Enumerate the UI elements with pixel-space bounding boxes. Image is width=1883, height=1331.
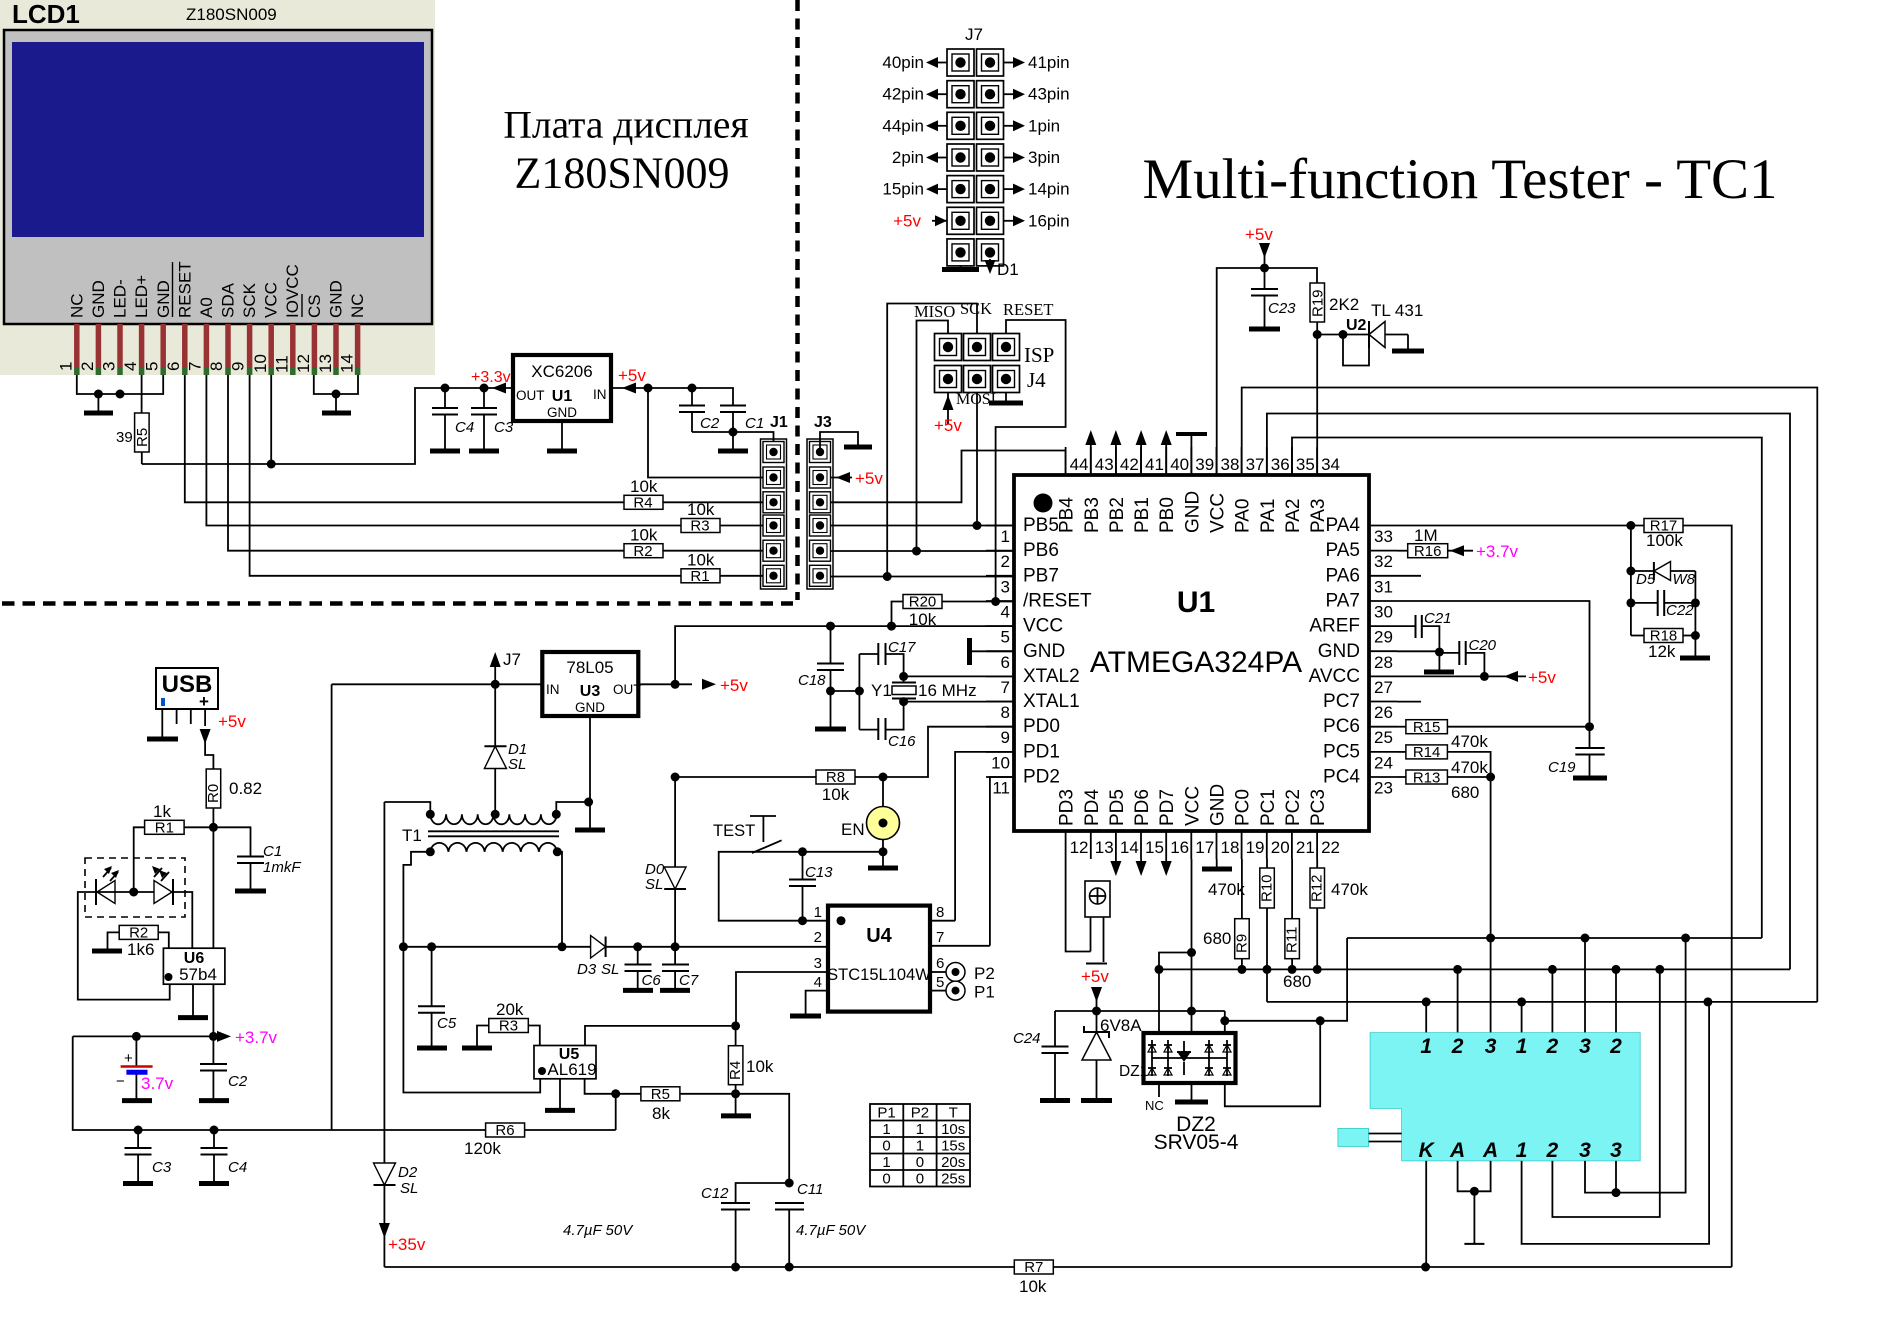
svg-text:RESET: RESET [176, 261, 195, 318]
svg-text:C5: C5 [437, 1015, 457, 1032]
svg-text:PD6: PD6 [1132, 789, 1153, 826]
svg-text:SL: SL [508, 756, 526, 773]
svg-text:680: 680 [1451, 783, 1479, 802]
svg-text:15s: 15s [941, 1138, 965, 1155]
svg-text:R11: R11 [1284, 927, 1301, 953]
svg-text:10k: 10k [687, 500, 715, 519]
svg-text:U2: U2 [1346, 317, 1367, 334]
svg-text:AVCC: AVCC [1309, 666, 1360, 687]
svg-text:2: 2 [1546, 1139, 1559, 1162]
rail pin17 to DZ2 left pin [1159, 953, 1192, 1034]
svg-text:MISO: MISO [914, 302, 955, 321]
U5 ground [559, 1079, 561, 1109]
svg-text:2: 2 [1609, 1035, 1622, 1058]
wire LCD pin9 SCK to R1 row [250, 375, 681, 576]
resistor R18 (12k) [1644, 629, 1683, 643]
U1 GND stem and ground [561, 421, 563, 449]
svg-text:XTAL2: XTAL2 [1023, 666, 1080, 687]
svg-text:PA6: PA6 [1325, 565, 1360, 586]
svg-text:SRV05-4: SRV05-4 [1154, 1131, 1239, 1154]
svg-text:Multi-function Tester - TC1: Multi-function Tester - TC1 [1142, 148, 1777, 211]
svg-text:19: 19 [1246, 838, 1265, 857]
svg-text:GND: GND [89, 280, 108, 318]
svg-text:D2: D2 [398, 1164, 418, 1181]
IC U4 STC15L104W [828, 906, 930, 1012]
svg-text:4: 4 [121, 362, 140, 371]
svg-text:R5: R5 [134, 428, 151, 447]
svg-text:+5v: +5v [1245, 225, 1273, 244]
socket K pin to bottom rail [1425, 1161, 1427, 1267]
svg-text:VCC: VCC [1182, 786, 1203, 826]
+5v tap for IR [1086, 963, 1107, 965]
svg-text:PA2: PA2 [1283, 498, 1304, 533]
svg-text:6: 6 [936, 955, 944, 972]
svg-text:6: 6 [1001, 653, 1010, 672]
svg-text:10: 10 [991, 753, 1010, 772]
svg-text:2: 2 [1451, 1035, 1464, 1058]
svg-text:680: 680 [1203, 929, 1231, 948]
svg-text:VCC: VCC [1208, 493, 1229, 533]
svg-text:VCC: VCC [1023, 616, 1063, 637]
R14 right riser down to socket [1447, 752, 1490, 1033]
svg-text:42pin: 42pin [882, 85, 924, 104]
connector J1 [761, 414, 788, 589]
bottom +35v rail [384, 1266, 1014, 1268]
wire ISP MISO to PB6 row [917, 321, 949, 552]
+5v rail with C24 and DZ1 [1055, 1010, 1225, 1012]
right rail D5-C22-R18 to ground [1694, 571, 1696, 656]
svg-text:2pin: 2pin [892, 148, 924, 167]
resistor R20 (10k) /RESET pull-up [903, 595, 942, 609]
svg-text:8: 8 [207, 362, 226, 371]
svg-text:C1: C1 [745, 415, 764, 432]
D2 column / +35v vertical [383, 802, 385, 1163]
resistor R1 (10k) to J1 pin6 [681, 569, 720, 583]
svg-text:−: − [116, 1073, 125, 1090]
capacitor C19 [1575, 747, 1604, 749]
svg-text:C11: C11 [797, 1181, 823, 1198]
svg-text:A0: A0 [197, 297, 216, 318]
svg-text:PA4: PA4 [1325, 515, 1360, 536]
wire +5v down to J1 pin2 [648, 388, 763, 478]
svg-text:+5v: +5v [934, 416, 962, 435]
svg-text:12: 12 [294, 354, 313, 373]
resistor R19 (2K2) [1310, 283, 1325, 322]
svg-text:470k: 470k [1208, 880, 1245, 899]
svg-text:44: 44 [1070, 455, 1089, 474]
U6/R0 column down to +3.7v row [212, 984, 214, 1036]
svg-text:C2: C2 [228, 1073, 248, 1090]
capacitor C24 [1054, 1011, 1056, 1047]
U4 pin3 wire to R4 node [736, 972, 828, 1026]
wire LCD pin7 A0 to R3 row [206, 375, 681, 526]
svg-text:+5v: +5v [218, 712, 246, 731]
svg-text:R12: R12 [1309, 874, 1326, 902]
+35v tap [379, 1223, 390, 1238]
svg-text:4.7µF 50V: 4.7µF 50V [796, 1222, 867, 1239]
wire ISP MOSI (pin5) to PB5 row [976, 392, 978, 526]
DZ2 center zener [1178, 1053, 1190, 1062]
diode D0 SL on +5v column [674, 777, 676, 867]
svg-text:C2: C2 [700, 415, 720, 432]
svg-text:R10: R10 [1259, 874, 1276, 902]
svg-text:0.82: 0.82 [229, 779, 262, 798]
svg-text:41pin: 41pin [1028, 53, 1070, 72]
svg-text:2: 2 [78, 362, 97, 371]
svg-text:40: 40 [1170, 455, 1189, 474]
svg-text:44pin: 44pin [882, 116, 924, 135]
svg-text:PC2: PC2 [1283, 789, 1304, 826]
svg-text:+5v: +5v [1081, 967, 1109, 986]
svg-text:EN: EN [841, 820, 865, 839]
capacitor C11 [775, 1202, 804, 1204]
svg-text:3: 3 [814, 955, 822, 972]
svg-text:NC: NC [68, 293, 87, 318]
GND pin6 terminator bar [970, 650, 1015, 652]
svg-text:IN: IN [593, 387, 607, 402]
svg-text:XC6206: XC6206 [531, 362, 592, 381]
svg-text:R9: R9 [1233, 934, 1250, 953]
capacitor C6 [637, 947, 639, 965]
socket bus line 1 [1347, 937, 1762, 939]
resistor R5 (39 ohm backlight) [141, 375, 143, 413]
IC U6 57b4 [163, 948, 225, 984]
main secondary output row [403, 946, 590, 948]
svg-text:1pin: 1pin [1028, 116, 1060, 135]
opto right LED [154, 881, 172, 904]
crystal network left rail [831, 690, 860, 692]
svg-text:33: 33 [1374, 527, 1393, 546]
LCD screen [12, 42, 424, 237]
PD1 pin10 wire down to U4 pin8 [955, 752, 1014, 921]
capacitor C21 on AREF [1397, 625, 1416, 627]
LCD pin names rotated [68, 261, 368, 318]
svg-text:42: 42 [1120, 455, 1139, 474]
svg-text:1: 1 [916, 1121, 924, 1138]
svg-text:14pin: 14pin [1028, 180, 1070, 199]
PA0 pin37 riser to right edge [1242, 388, 1818, 1002]
LCD pin numbers rotated [57, 354, 357, 373]
resistor R17 (100k) [1644, 519, 1683, 533]
capacitor C4 (bottom left) [213, 1130, 215, 1148]
J7 bottom-right pad to D1 arrow [989, 259, 991, 266]
J3 pin2 +5v arrow [831, 477, 853, 479]
IC U5 AL619 [534, 1046, 596, 1079]
resistor R10 (470k) vertical on PC1 [1260, 868, 1275, 908]
svg-text:1: 1 [1516, 1035, 1528, 1058]
svg-text:C23: C23 [1268, 300, 1296, 317]
svg-text:13: 13 [1095, 838, 1114, 857]
capacitor C20 [1439, 652, 1459, 654]
svg-text:IOVCC: IOVCC [283, 264, 302, 318]
svg-text:2: 2 [1546, 1035, 1559, 1058]
svg-text:21: 21 [1296, 838, 1315, 857]
PC7 pin26 stub wire [1397, 701, 1421, 703]
U5 right-bottom pin to R5 row [585, 1079, 616, 1094]
resistor R4 (10k) to J1 pin3 [624, 495, 663, 509]
svg-text:9: 9 [1001, 728, 1010, 747]
svg-text:OUT: OUT [516, 388, 545, 403]
svg-text:3: 3 [1001, 577, 1010, 596]
resistor R15 (470k) on PC6 [1397, 726, 1406, 728]
svg-text:PA3: PA3 [1308, 498, 1329, 533]
svg-text:20k: 20k [496, 1000, 524, 1019]
svg-text:29: 29 [1374, 628, 1393, 647]
resistor R7 (10k) on bottom rail [1014, 1260, 1053, 1274]
svg-text:PB7: PB7 [1023, 565, 1059, 586]
TEST lower terminal to U4 pin1 [719, 852, 828, 921]
svg-text:R15: R15 [1413, 719, 1441, 736]
svg-text:C13: C13 [805, 864, 833, 881]
resistor R6 (120k) [486, 1123, 525, 1137]
arrowhead into OUT [492, 383, 506, 394]
resistor R8 (10k) [816, 770, 855, 784]
regulator U1 XC6206 [513, 355, 611, 421]
svg-text:1: 1 [882, 1154, 890, 1171]
J7 left pin labels and arrows [882, 53, 947, 230]
svg-text:D1: D1 [997, 260, 1019, 279]
svg-text:PB2: PB2 [1107, 497, 1128, 533]
IR legs [1090, 917, 1092, 952]
svg-text:D3: D3 [577, 961, 597, 978]
capacitor C4 [441, 384, 450, 393]
+3.3v rail from R5 to XC6206 OUT [142, 388, 513, 464]
VCC pin17 column down [1191, 859, 1193, 1033]
PA6 pin31 stub wire [1397, 575, 1421, 577]
EN pad (yellow) [867, 807, 900, 840]
diode D2 SL [374, 1163, 396, 1185]
svg-text:J3: J3 [814, 414, 832, 431]
svg-text:+5v: +5v [720, 676, 748, 695]
svg-text:26: 26 [1374, 703, 1393, 722]
svg-text:J4: J4 [1027, 368, 1046, 392]
J3 pin1 to ground [820, 432, 858, 452]
DZ2 NC pin [1158, 1083, 1160, 1097]
svg-text:18: 18 [1221, 838, 1240, 857]
resistor R3 (20k) [489, 1019, 529, 1033]
svg-text:R3: R3 [690, 518, 709, 535]
svg-text:Плата дисплея: Плата дисплея [503, 103, 748, 147]
capacitor C7 [674, 947, 676, 965]
TEST to C13/EN row [752, 851, 883, 853]
svg-text:43: 43 [1095, 455, 1114, 474]
svg-text:6: 6 [164, 362, 183, 371]
svg-text:15pin: 15pin [882, 180, 924, 199]
USB connector [156, 668, 218, 737]
truth table P1 P2 T [870, 1104, 970, 1187]
socket bottom pin labels [1419, 1139, 1623, 1162]
svg-text:1: 1 [916, 1138, 924, 1155]
svg-text:36: 36 [1271, 455, 1290, 474]
svg-text:P2: P2 [974, 964, 995, 983]
svg-text:4: 4 [1001, 603, 1010, 622]
svg-text:39: 39 [116, 429, 133, 446]
svg-text:1M: 1M [1414, 526, 1438, 545]
svg-text:IN: IN [546, 682, 560, 697]
svg-text:7: 7 [1001, 678, 1010, 697]
PA7 pin30 wire to C19 rail [1397, 601, 1590, 748]
svg-text:GND: GND [1023, 641, 1065, 662]
svg-text:PB4: PB4 [1057, 497, 1078, 533]
svg-text:W8: W8 [1673, 571, 1696, 588]
svg-text:24: 24 [1374, 753, 1393, 772]
svg-text:+5v: +5v [1528, 668, 1556, 687]
J3 pin4 wire to PB5 [831, 525, 1015, 527]
svg-text:+: + [124, 1050, 133, 1067]
svg-text:PD7: PD7 [1157, 789, 1178, 826]
svg-text:13: 13 [316, 354, 335, 373]
XTAL2 row [904, 675, 1014, 677]
svg-text:PA7: PA7 [1325, 591, 1360, 612]
wire LCD pins 1,2,3,5 to ground [77, 375, 163, 394]
svg-text:C18: C18 [798, 672, 826, 689]
resistor R13 (680) on PC4 [1397, 776, 1406, 778]
svg-text:ISP: ISP [1024, 343, 1054, 367]
U3 OUT +5v [638, 683, 692, 685]
svg-text:R6: R6 [495, 1122, 514, 1139]
T1 primary winding [430, 814, 556, 824]
svg-text:R16: R16 [1414, 543, 1442, 560]
svg-text:PC7: PC7 [1323, 691, 1360, 712]
ISP pin6 ground [1005, 392, 1007, 401]
svg-text:GND: GND [1182, 491, 1203, 533]
diode D1 SL [494, 684, 496, 746]
svg-text:PC1: PC1 [1258, 789, 1279, 826]
svg-text:10k: 10k [687, 551, 715, 570]
svg-text:20: 20 [1271, 838, 1290, 857]
svg-text:+5v: +5v [618, 366, 646, 385]
wire IN rail down to R6 row [331, 684, 333, 1130]
U4 pin7 stub [930, 945, 990, 947]
svg-text:PD5: PD5 [1107, 789, 1128, 826]
svg-text:11: 11 [273, 355, 292, 373]
svg-text:PD4: PD4 [1082, 789, 1103, 826]
connector J3 [807, 414, 833, 589]
svg-text:5: 5 [936, 974, 944, 991]
svg-text:8: 8 [936, 904, 944, 921]
svg-text:7: 7 [936, 929, 944, 946]
svg-text:TL 431: TL 431 [1371, 301, 1423, 320]
svg-text:D5: D5 [1636, 571, 1656, 588]
svg-text:35: 35 [1296, 455, 1315, 474]
AVCC pin27 +5v arrow [1397, 675, 1526, 677]
P1 pad [930, 990, 946, 992]
VCC row (pin5) from +5v node [675, 626, 1014, 684]
svg-text:GND: GND [547, 405, 577, 420]
down arrows below PD5 PD6 PD7 [1115, 859, 1117, 862]
svg-text:3: 3 [100, 362, 119, 371]
svg-text:C4: C4 [228, 1159, 247, 1176]
svg-text:15: 15 [1145, 838, 1164, 857]
capacitor C3 [480, 384, 489, 393]
svg-text:3: 3 [1579, 1139, 1591, 1162]
svg-text:10k: 10k [822, 785, 850, 804]
svg-text:PB6: PB6 [1023, 540, 1059, 561]
J7 bottom-left pad to ground [960, 266, 962, 268]
socket bus line 3 [1267, 1001, 1817, 1003]
svg-text:C16: C16 [888, 733, 916, 750]
ground LCD right [335, 394, 337, 411]
U1 left pin stubs and numbers 1-11 [986, 515, 1092, 798]
svg-text:0: 0 [916, 1154, 924, 1171]
U1 right pin stubs and numbers 33-23 [1309, 515, 1397, 798]
ISP header J4 [935, 334, 1020, 393]
socket A pins joined to cathode bar [1458, 1161, 1491, 1191]
wire C2 bottom joining C1 column, then to J1 pin1 [692, 431, 733, 433]
svg-text:R19: R19 [1310, 289, 1327, 317]
T1 primary left lead to D2 column [384, 802, 430, 814]
LCD pin stubs 1-14 [77, 324, 358, 375]
capacitor C16 [859, 729, 878, 731]
svg-text:SL: SL [645, 876, 663, 893]
svg-text:C1: C1 [263, 843, 282, 860]
svg-text:PD2: PD2 [1023, 767, 1060, 788]
svg-text:GND: GND [1318, 641, 1360, 662]
U6 ground [192, 984, 194, 1015]
svg-text:11: 11 [992, 779, 1010, 798]
capacitor C18 [830, 626, 832, 663]
resistor R1 (1k) [145, 820, 185, 834]
svg-text:T: T [949, 1105, 958, 1122]
svg-text:10k: 10k [746, 1057, 774, 1076]
T1 secondary right lead down to output row [557, 852, 562, 947]
socket top pin labels [1420, 1035, 1622, 1058]
svg-text:C4: C4 [455, 419, 474, 436]
svg-text:8: 8 [1001, 703, 1010, 722]
svg-text:J7: J7 [965, 25, 983, 44]
svg-text:10: 10 [251, 354, 270, 373]
78L05 IN row [332, 683, 543, 685]
GND pin28 to ground [1397, 650, 1439, 652]
svg-text:A: A [1482, 1139, 1498, 1162]
svg-text:PB0: PB0 [1157, 497, 1178, 533]
svg-text:GND: GND [154, 280, 173, 318]
svg-text:16: 16 [1170, 838, 1189, 857]
svg-text:P2: P2 [911, 1105, 929, 1122]
svg-text:C22: C22 [1666, 602, 1694, 619]
resistor R2 (10k) to J1 pin5 [624, 544, 663, 558]
svg-text:78L05: 78L05 [566, 658, 613, 677]
opto left LED emission arrows [103, 868, 118, 881]
svg-text:Z180SN009: Z180SN009 [514, 149, 729, 198]
U2 reference feedback loop [1343, 335, 1369, 366]
dashed separator horizontal [2, 601, 793, 606]
battery 3.7v [135, 1036, 137, 1066]
svg-text:3: 3 [1579, 1035, 1591, 1058]
svg-text:31: 31 [1374, 577, 1393, 596]
PD2 pin11 wire down to U4 pin7 [990, 777, 1014, 946]
svg-text:28: 28 [1374, 653, 1393, 672]
svg-text:100k: 100k [1646, 531, 1683, 550]
svg-text:GND: GND [327, 280, 346, 318]
resistor R11 (680) vertical on PC2 [1285, 919, 1300, 959]
svg-text:Z180SN009: Z180SN009 [186, 5, 277, 24]
U3 GND stem [589, 716, 591, 828]
socket bottom pin 2 loop to bus2 [1552, 969, 1659, 1217]
J7 feed arrow [490, 652, 501, 667]
capacitor C12 [736, 1183, 790, 1203]
svg-text:25: 25 [1374, 728, 1393, 747]
svg-text:P1: P1 [877, 1105, 895, 1122]
svg-text:OUT: OUT [613, 682, 642, 697]
svg-text:23: 23 [1374, 779, 1393, 798]
svg-text:7: 7 [186, 362, 205, 371]
svg-text:R4: R4 [727, 1061, 744, 1080]
resistor R16 (1M) on PA5 [1397, 550, 1408, 552]
capacitor C23 [1264, 268, 1266, 289]
svg-text:120k: 120k [464, 1139, 501, 1158]
U4 pin8 stub [930, 920, 955, 922]
